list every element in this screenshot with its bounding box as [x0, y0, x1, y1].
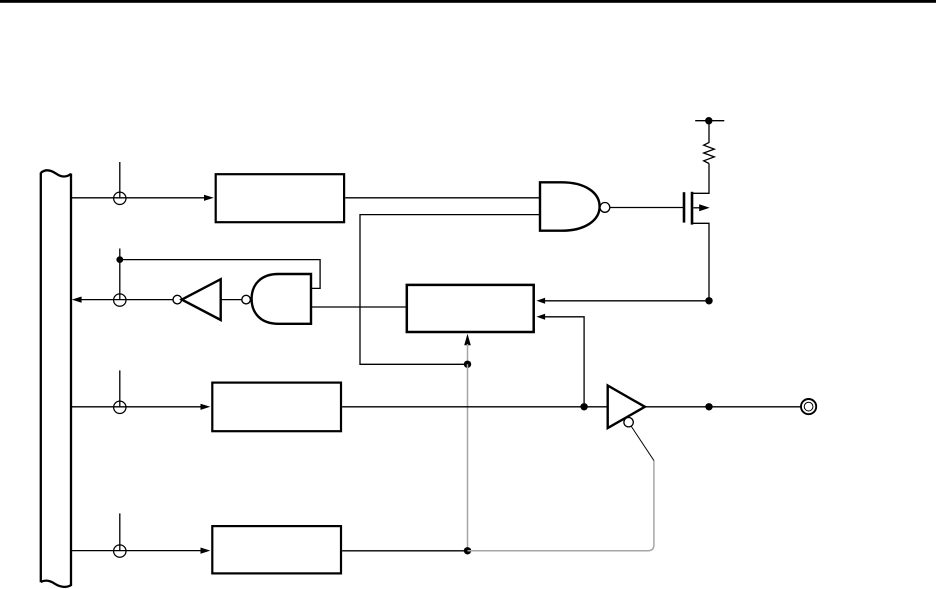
internal bus (broken bus symbol) [41, 170, 71, 587]
arrow up into block2 bottom [464, 334, 471, 346]
node circle row4 [114, 545, 126, 557]
wire block4 output [342, 550, 467, 552]
wire gray enable path to buffer bubble [468, 461, 654, 551]
junction dot vertical net [464, 361, 471, 368]
arrow into block2 lower [537, 314, 546, 320]
resistor R1 (pull-up) [704, 121, 715, 164]
mosfet Q1 drain elbow [692, 164, 709, 194]
tick row1 [119, 162, 121, 198]
bubble U4 enable [624, 418, 633, 427]
junction dot row2 tick [116, 256, 123, 263]
pin P1.x (inner circle) [804, 402, 813, 411]
block 2 (read buffer) [407, 285, 534, 332]
block 1 (latch) [216, 174, 344, 222]
arrow into block 3 [201, 404, 211, 410]
junction dot row4 net [464, 547, 471, 554]
bubble U1 output [600, 203, 610, 213]
node circle row3 [114, 401, 126, 413]
wire gray vertical net [467, 364, 469, 551]
wire gray shaft up arrow [467, 344, 469, 364]
wire row2: arrow to circle [80, 299, 174, 301]
wire block2 upper input from pin net [544, 300, 709, 302]
nand U2 (points left) [252, 274, 311, 324]
wire NAND U1 input 2 (elbow to vertical net) [360, 215, 540, 365]
node circle row1 [114, 192, 126, 204]
wire inverter to U2 bubble [221, 299, 242, 301]
node circle row2 [114, 294, 126, 306]
arrow into block 4 [201, 548, 211, 554]
mosfet Q1 source elbow [692, 223, 709, 300]
bubble U2 output [242, 295, 251, 304]
junction dot pullup net [705, 297, 712, 304]
arrow into block 1 [204, 195, 214, 201]
tick row4 [119, 513, 121, 550]
arrow row2 into bus [72, 297, 82, 303]
junction dot buffer input [580, 403, 587, 410]
wire U1 to mosfet gate [610, 207, 683, 209]
wire row1: bus to read circle [71, 197, 206, 199]
block 3 (latch) [212, 383, 341, 432]
wire block1 to NAND U1 input 1 [345, 197, 540, 199]
wire block3 to buffer [342, 406, 608, 408]
bubble inverter output [173, 295, 182, 304]
wire enable diagonal to bubble [631, 426, 654, 460]
inverter U3 (points left) [182, 279, 221, 320]
junction dot vcc [705, 117, 712, 124]
junction dot output net [705, 403, 712, 410]
wire U2 input from block 2 [311, 306, 406, 308]
vcc rail [695, 120, 724, 122]
wire row4: bus to block 4 [71, 550, 202, 552]
wire row3: bus to block 3 [71, 406, 202, 408]
wire block2 lower input elbow [544, 317, 584, 407]
tick row3 [119, 370, 121, 406]
wire buffer output to pin [645, 406, 802, 408]
pin P1.x (outer circle) [801, 399, 816, 414]
mosfet Q1 bulk arrow [693, 207, 700, 209]
tick row2 [119, 249, 121, 300]
arrow into block2 upper [537, 298, 546, 304]
mosfet Q1 gate bar [683, 192, 686, 222]
feedback wire to nand U2 [120, 260, 320, 289]
nand U1 [540, 182, 600, 230]
buffer U4 (tri-state) [608, 386, 645, 429]
block 4 (control) [212, 526, 341, 573]
page top rule [0, 0, 936, 3]
mosfet Q1 channel bar [691, 192, 694, 225]
